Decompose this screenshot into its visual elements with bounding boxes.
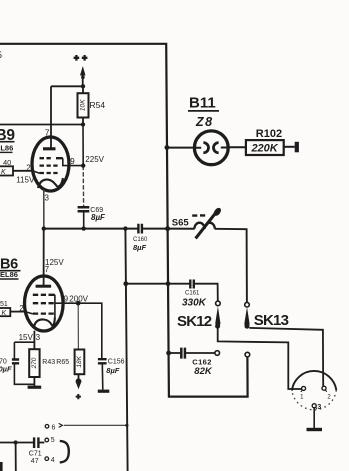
svg-text:9: 9	[70, 157, 75, 166]
svg-text:R43: R43	[42, 359, 55, 366]
svg-text:10K: 10K	[80, 99, 87, 111]
svg-text:115V: 115V	[16, 176, 35, 185]
svg-text:2: 2	[19, 304, 24, 313]
svg-text:7: 7	[45, 265, 50, 274]
svg-text:220K: 220K	[250, 143, 278, 155]
svg-text:270: 270	[31, 357, 38, 369]
svg-text:C156: C156	[108, 359, 125, 366]
svg-text:8µF: 8µF	[91, 213, 106, 222]
svg-text:C161: C161	[185, 290, 200, 296]
svg-text:K: K	[2, 310, 7, 317]
svg-text:K: K	[1, 169, 6, 176]
svg-text:8µF: 8µF	[133, 243, 146, 252]
svg-text:9: 9	[64, 295, 69, 304]
svg-text:SK12: SK12	[177, 313, 212, 330]
svg-text:C71: C71	[29, 450, 42, 457]
svg-text:1: 1	[300, 394, 304, 400]
svg-text:225V: 225V	[85, 155, 104, 164]
svg-text:8µF: 8µF	[106, 366, 119, 375]
svg-text:15V: 15V	[19, 333, 34, 342]
svg-text:B11: B11	[189, 95, 216, 112]
svg-text:2: 2	[26, 163, 31, 172]
svg-text:3: 3	[45, 193, 50, 202]
svg-text:Z8: Z8	[195, 115, 214, 129]
svg-text:C160: C160	[133, 237, 148, 243]
svg-text:3: 3	[317, 404, 321, 411]
svg-text:6: 6	[52, 424, 56, 431]
svg-text:330K: 330K	[182, 298, 207, 309]
svg-text:S65: S65	[172, 218, 190, 229]
svg-text:51: 51	[0, 301, 8, 308]
svg-text:2: 2	[327, 394, 331, 400]
svg-text:47: 47	[31, 458, 39, 465]
svg-text:SK13: SK13	[254, 312, 289, 329]
svg-text:5: 5	[0, 50, 2, 60]
svg-text:18K: 18K	[76, 355, 83, 367]
svg-text:82K: 82K	[194, 366, 213, 377]
svg-text:200V: 200V	[69, 295, 88, 304]
svg-text:R54: R54	[90, 100, 106, 110]
svg-text:40: 40	[3, 158, 11, 167]
svg-text:R65: R65	[56, 359, 69, 366]
svg-text:R102: R102	[256, 128, 282, 140]
svg-text:0µF: 0µF	[0, 364, 12, 373]
svg-text:4: 4	[51, 457, 55, 464]
svg-text:5: 5	[51, 437, 55, 444]
svg-text:EL86: EL86	[0, 270, 18, 279]
svg-text:7: 7	[45, 128, 50, 138]
svg-text:3: 3	[36, 333, 41, 342]
svg-text:EL86: EL86	[0, 144, 13, 153]
